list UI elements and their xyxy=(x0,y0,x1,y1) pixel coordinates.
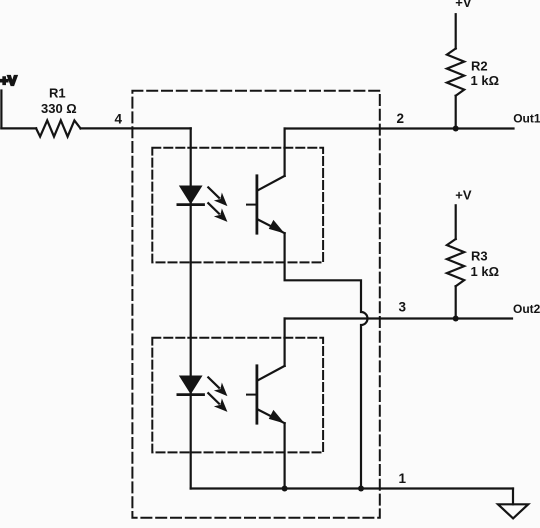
opto channel 2 inner dashed box xyxy=(152,338,323,453)
junction dot Q2 emitter / pin1 rail xyxy=(282,486,288,492)
junction dot R2/Out1 xyxy=(453,126,459,132)
wire R1 to pin 4 of package xyxy=(81,127,191,129)
svg-text:+V: +V xyxy=(455,0,472,10)
node +V (above R2) xyxy=(455,0,472,10)
svg-text:4: 4 xyxy=(115,111,123,126)
wire +V to R3 xyxy=(455,205,457,239)
phototransistor Q2 xyxy=(247,366,285,423)
pin 1 label xyxy=(399,471,407,486)
light emission arrows channel 1 xyxy=(208,187,226,221)
resistor R2 xyxy=(447,49,464,96)
svg-text:R3: R3 xyxy=(471,248,488,263)
svg-text:1 kΩ: 1 kΩ xyxy=(471,264,500,279)
wire Q2 emitter down to pin1 rail xyxy=(284,423,286,488)
label R3 value 1 kohm xyxy=(471,248,500,279)
wire Q1 collector up to pin 2 xyxy=(284,129,286,176)
phototransistor Q1 xyxy=(247,176,285,233)
wire R3 to Out2 node xyxy=(455,286,457,318)
resistor R3 xyxy=(447,239,464,286)
optocoupler package U1 (outer dashed box) xyxy=(132,91,379,518)
wire pin1 rail down to ground xyxy=(512,489,514,505)
pin 2 label xyxy=(397,111,405,126)
node +V (left supply) xyxy=(0,73,17,88)
wire from +V corner to R1 xyxy=(1,127,36,129)
wire pin 2 to Out1 xyxy=(285,127,514,129)
junction dot R3/Out2 xyxy=(453,316,459,322)
LED D2 xyxy=(178,376,204,394)
wire pin 1 (ground rail) xyxy=(191,487,513,489)
wire +V to R2 xyxy=(455,14,457,48)
resistor R1 xyxy=(36,120,80,136)
label R2 value 1 kohm xyxy=(471,58,500,88)
svg-text:330 Ω: 330 Ω xyxy=(41,101,77,116)
opto channel 1 inner dashed box xyxy=(152,148,323,263)
pin 3 label xyxy=(399,300,407,315)
LED D1 xyxy=(178,186,204,204)
wire Q2 collector up to pin 3 xyxy=(284,319,286,366)
svg-text:1 kΩ: 1 kΩ xyxy=(471,73,500,88)
pin 4 label xyxy=(115,111,123,126)
wire LED feed vertical (pin4 rail, through both LEDs) xyxy=(190,128,192,488)
node Out2 label xyxy=(513,302,540,316)
svg-text:+V: +V xyxy=(0,73,17,88)
svg-text:3: 3 xyxy=(399,300,407,315)
svg-text:2: 2 xyxy=(397,111,405,126)
label R1 value 330 ohm xyxy=(41,86,77,117)
light emission arrows channel 2 xyxy=(208,377,226,411)
wire +V stub down to input wire xyxy=(0,91,2,129)
wire Q1 emitter down, right, and down to pin1 rail (hops over pin3 wire) xyxy=(285,233,368,488)
ground symbol xyxy=(498,504,528,518)
wire R2 to Out1 node xyxy=(455,96,457,129)
junction dot Q1 emitter branch / pin1 rail xyxy=(358,486,364,492)
wire pin 3 to Out2 xyxy=(285,317,512,319)
svg-text:R1: R1 xyxy=(49,86,66,101)
svg-text:R2: R2 xyxy=(471,58,488,73)
svg-text:Out2: Out2 xyxy=(513,302,540,316)
svg-text:+V: +V xyxy=(455,188,472,203)
node +V (above R3) xyxy=(455,188,472,203)
node Out1 label xyxy=(513,111,540,125)
svg-text:1: 1 xyxy=(399,471,407,486)
svg-text:Out1: Out1 xyxy=(513,111,540,125)
